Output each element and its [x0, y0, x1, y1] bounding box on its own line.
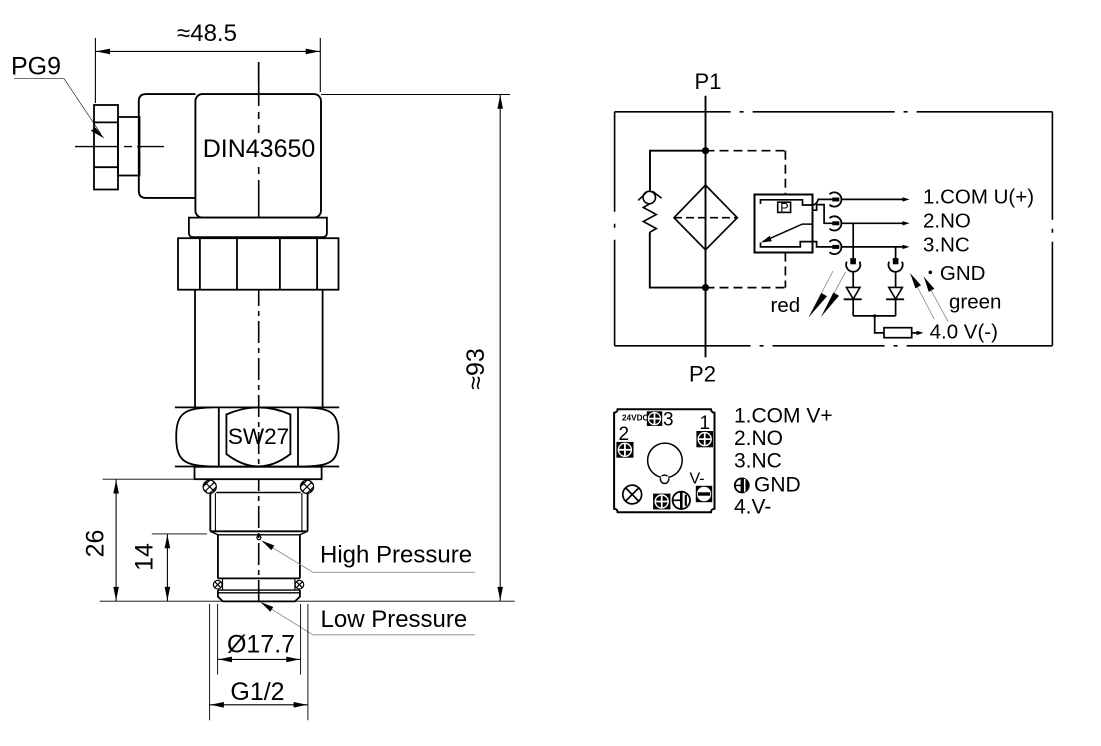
hex nut facet division lines	[219, 407, 298, 466]
pin 2 screw	[616, 442, 633, 458]
contact 2 receptacle arc	[830, 216, 842, 230]
dimension 93 line	[499, 95, 501, 602]
G1/2 extension lines	[210, 604, 308, 720]
bottom cap sides and chamfer	[218, 590, 300, 601]
wire left branch top	[650, 151, 706, 192]
svg-text:1.COM V+: 1.COM V+	[734, 405, 833, 428]
red LED ray 1 arrow	[809, 293, 827, 317]
svg-text:14: 14	[131, 543, 159, 571]
green LED ray 1 line	[910, 273, 934, 319]
svg-text:green: green	[949, 291, 1001, 314]
mid cylinder dia 17.7	[218, 535, 300, 579]
svg-text:3.NC: 3.NC	[734, 450, 782, 473]
hex nut left barrel facet	[176, 407, 212, 466]
contact pin 1 square	[832, 198, 839, 202]
dim 26 top extension line	[103, 478, 207, 480]
node top junction	[702, 147, 709, 154]
collar under DIN box	[189, 218, 327, 238]
svg-text:PG9: PG9	[11, 53, 61, 81]
svg-text:Low Pressure: Low Pressure	[321, 606, 468, 633]
high pressure leader	[263, 542, 476, 573]
dimension line 48.5	[95, 50, 320, 52]
hex nut right barrel facet	[305, 407, 339, 466]
dimension 26 line	[115, 479, 117, 601]
wire down to resistor	[875, 316, 884, 333]
green LED ray 1 arrow	[910, 273, 921, 288]
wire NC to label	[842, 246, 907, 248]
NC exit jog wire	[813, 242, 833, 247]
P sensor box inside relay	[778, 202, 791, 212]
svg-text:4.0 V(-): 4.0 V(-)	[930, 320, 998, 343]
high pressure leader arrow	[262, 541, 275, 551]
wire NC drop to green LED	[895, 247, 897, 258]
svg-text:1.COM U(+): 1.COM U(+)	[923, 186, 1034, 209]
svg-text:4.V-: 4.V-	[734, 495, 771, 518]
svg-text:GND: GND	[940, 262, 986, 285]
green LED receptacle cup	[889, 262, 903, 272]
green LED connector square	[893, 258, 899, 264]
red LED connector square	[850, 258, 856, 264]
svg-text:red: red	[771, 294, 801, 317]
svg-text:3: 3	[663, 410, 674, 431]
connector left housing	[139, 94, 196, 198]
svg-text:G1/2: G1/2	[230, 678, 284, 706]
washer under hex	[195, 467, 322, 479]
svg-text:Ø17.7: Ø17.7	[227, 631, 295, 659]
dashed control box right	[784, 151, 786, 288]
svg-text:P2: P2	[689, 362, 716, 387]
o-ring right lower	[295, 580, 304, 589]
low pressure leader arrow	[261, 602, 274, 612]
spring resistor zigzag	[643, 204, 656, 233]
dim 14 top extension line	[152, 533, 207, 535]
bottom shared extension line	[100, 600, 515, 602]
o-ring left lower	[213, 580, 222, 589]
svg-text:≈93: ≈93	[462, 348, 490, 390]
svg-text:P: P	[780, 201, 788, 215]
DIN43650 connector box	[195, 94, 321, 218]
red LED ray 2 line	[821, 272, 845, 316]
LED common wire	[853, 315, 895, 317]
svg-text:SW27: SW27	[228, 424, 289, 449]
svg-text:2: 2	[619, 424, 630, 445]
switch arm arrowhead	[761, 236, 772, 243]
cable gland division lines	[94, 122, 118, 167]
P1/P2 pressure line vertical	[705, 96, 707, 358]
check valve seat ticks	[638, 191, 661, 200]
pin 4 screw	[653, 494, 670, 510]
dimension 48.5 extension line right	[319, 38, 321, 92]
svg-text:2.NO: 2.NO	[734, 427, 783, 450]
wire left branch bottom	[650, 232, 706, 287]
groove bottom line	[218, 589, 300, 591]
centerline inside DIN box	[258, 62, 260, 217]
arrow right of 48.5	[306, 49, 320, 55]
red LED diode triangle	[846, 287, 860, 299]
leader arrow PG9	[91, 128, 105, 139]
diamond dashed centerline	[674, 217, 737, 219]
knurled nut band	[178, 238, 339, 290]
green LED stub	[895, 271, 897, 287]
contact pin 2 square	[832, 221, 839, 225]
red LED stub	[852, 271, 854, 287]
junction tick	[873, 314, 876, 317]
high pressure point dot	[257, 536, 261, 540]
thread section G1/2	[216, 492, 300, 494]
dimension 48.5 extension line left	[94, 38, 96, 103]
pin 3 screw	[647, 411, 662, 426]
green LED ray 2 line	[924, 277, 948, 321]
dashed control box bottom	[706, 287, 786, 289]
pin V- screw	[696, 486, 712, 502]
dim 93 top extension line	[321, 94, 510, 96]
green LED ray 2 arrow	[924, 277, 934, 292]
red LED receptacle cup	[846, 262, 860, 272]
resistor R1	[884, 328, 912, 338]
earth symbol in label list	[734, 478, 748, 494]
enclosure box bottom edge	[615, 345, 1053, 347]
contact 1 receptacle arc	[830, 192, 842, 206]
dia 17.7 dimension line	[218, 658, 301, 660]
o-ring right upper	[300, 480, 313, 493]
thread bottom step	[210, 530, 307, 532]
svg-text:3.NC: 3.NC	[923, 233, 970, 256]
check valve circle	[643, 191, 655, 203]
svg-text:2.NO: 2.NO	[923, 210, 971, 233]
svg-text:26: 26	[82, 530, 110, 558]
red LED cathode bar	[844, 298, 862, 300]
enclosure box left edge	[614, 112, 616, 346]
o-ring groove top line	[218, 577, 300, 579]
bottom cap line	[218, 592, 300, 594]
G1/2 dimension line	[210, 704, 308, 706]
node bottom junction	[702, 284, 709, 291]
svg-text:High Pressure: High Pressure	[320, 542, 472, 569]
thread root lines	[215, 493, 302, 531]
connector face plate	[614, 409, 714, 512]
relay internal NC wire	[761, 242, 813, 247]
svg-text:24VDC: 24VDC	[622, 413, 648, 422]
cable gland PG9 body	[94, 105, 118, 190]
body cylinder	[195, 290, 323, 408]
SW27 hex nut	[175, 407, 339, 466]
green LED cathode bar	[886, 298, 904, 300]
pin 1 screw	[696, 431, 713, 447]
dia 17.7 extension lines	[218, 604, 301, 675]
center keyway circle	[648, 443, 683, 478]
switch arm	[763, 224, 813, 242]
NO crossover jog wire	[813, 205, 833, 224]
enclosure box right edge	[1051, 112, 1053, 346]
hex nut middle facet barrel	[226, 407, 290, 466]
keyway bump	[660, 475, 668, 483]
svg-text:DIN43650: DIN43650	[203, 135, 316, 163]
relay internal COM wire	[761, 200, 813, 205]
COM wire exit curve	[813, 199, 833, 205]
dashed control box top	[706, 150, 786, 152]
leader line PG9	[14, 79, 101, 135]
green LED lower stub	[895, 299, 897, 316]
gland neck	[118, 117, 140, 176]
enclosure chain-line box top edge	[615, 111, 1053, 113]
green LED diode triangle	[889, 287, 903, 299]
wire COM to label	[842, 198, 907, 200]
pressure source diamond	[674, 185, 737, 250]
wire NO drop to red LED	[852, 223, 854, 258]
svg-text:V-: V-	[690, 471, 705, 488]
GND dot	[929, 271, 933, 275]
contact pin 3 square	[832, 245, 839, 249]
centerline vertical of sensor body	[258, 62, 260, 607]
svg-text:≈48.5: ≈48.5	[177, 20, 237, 47]
o-ring left upper	[203, 480, 216, 493]
svg-text:P1: P1	[695, 69, 722, 94]
knurl division lines	[200, 238, 317, 290]
connector earth symbol	[673, 492, 690, 509]
gland centerline crosshair	[75, 146, 164, 148]
contact 3 receptacle arc	[830, 240, 842, 254]
red LED ray 1 line	[809, 271, 833, 317]
wire NO to label	[842, 222, 907, 224]
pressure switch relay box	[755, 195, 813, 253]
arrow left of 48.5	[96, 49, 110, 55]
dimension 14 line	[166, 534, 168, 601]
red LED lower stub	[852, 299, 854, 316]
wire resistor to 4.0V label	[912, 332, 920, 334]
lamp symbol	[623, 485, 642, 504]
svg-text:1: 1	[700, 413, 711, 434]
red LED ray 2 arrow	[821, 293, 839, 317]
groove inner walls	[223, 579, 295, 590]
svg-text:GND: GND	[754, 473, 801, 496]
low pressure leader	[262, 603, 476, 635]
